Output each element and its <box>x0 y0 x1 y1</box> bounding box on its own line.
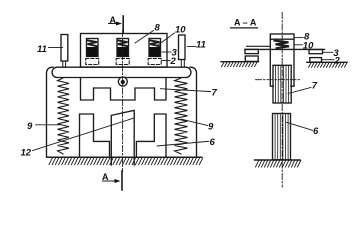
leader 8 <box>135 31 154 44</box>
bolt 11 right <box>179 35 186 60</box>
svg-text:6: 6 <box>313 126 319 137</box>
pole plate 3 right <box>309 50 323 54</box>
horizontal axis A-A <box>256 79 301 81</box>
svg-text:2: 2 <box>170 56 177 67</box>
spring 9 left <box>58 78 70 154</box>
electromagnet block E1 <box>87 39 99 57</box>
ground bottom A-A <box>255 159 301 161</box>
leader 6 right <box>157 141 209 146</box>
core column 6 section <box>273 114 291 160</box>
ground hatching main view <box>49 158 203 165</box>
pivot dot <box>121 80 125 84</box>
plate top left line <box>247 45 271 47</box>
svg-text:A: A <box>110 15 117 25</box>
centerline main <box>122 31 124 172</box>
leader 3 A-A <box>323 51 333 53</box>
leader 2 main <box>162 60 170 62</box>
svg-text:9: 9 <box>208 122 214 133</box>
leader 10 A-A <box>294 44 302 46</box>
svg-text:11: 11 <box>196 39 206 50</box>
lower block left (6) <box>80 114 110 157</box>
screw post 12 <box>111 110 134 165</box>
ground right A-A <box>307 61 347 63</box>
leader 3 main <box>162 51 171 53</box>
arrow A top <box>109 23 120 25</box>
beam capsule <box>52 67 191 77</box>
electromagnet block E3 <box>149 39 161 57</box>
svg-text:10: 10 <box>303 40 314 51</box>
centerline A-A <box>281 13 283 188</box>
svg-text:6: 6 <box>210 137 216 148</box>
leader 7 main <box>161 89 211 92</box>
base pad 2 right <box>310 58 322 63</box>
svg-text:A – A: A – A <box>234 18 257 28</box>
bolt 11 left <box>61 35 68 62</box>
leader 11 left <box>49 47 63 49</box>
bolt 11 left stem <box>63 61 66 67</box>
spring 9 right <box>175 78 188 154</box>
section line A top <box>122 16 124 33</box>
ground main view <box>47 156 202 158</box>
leader 2 A-A <box>322 59 334 61</box>
leader 10 main <box>158 33 175 45</box>
svg-text:11: 11 <box>37 44 47 55</box>
cap 8 section <box>270 34 294 39</box>
plate line <box>245 48 325 50</box>
svg-text:2: 2 <box>334 56 341 67</box>
arrow A bottom <box>103 180 118 182</box>
lower block right (6) <box>136 114 166 157</box>
ground left A-A <box>221 61 259 63</box>
svg-text:8: 8 <box>155 23 161 34</box>
dashed armature pad 3 <box>148 59 161 65</box>
armature column 7 section <box>273 65 291 103</box>
leader 8 A-A <box>295 37 304 39</box>
upper comb plate 7 <box>81 78 167 101</box>
svg-text:9: 9 <box>27 121 33 132</box>
coil 10 section <box>275 41 290 49</box>
leader 12 <box>33 118 135 151</box>
base pad 2 left <box>245 56 258 61</box>
svg-text:7: 7 <box>312 81 318 92</box>
svg-text:7: 7 <box>212 88 218 99</box>
frame outer walls <box>47 67 197 157</box>
leader 7 A-A <box>288 87 311 93</box>
dashed armature pad 2 <box>116 59 129 65</box>
leader 6 A-A <box>287 122 313 130</box>
svg-text:10: 10 <box>175 25 186 36</box>
leader 9 right <box>181 119 208 126</box>
bolt 11 right stem <box>181 60 184 68</box>
dashed armature pad 1 <box>86 59 99 65</box>
leader 9 left <box>36 124 60 126</box>
electromagnet block E2 <box>117 39 129 57</box>
housing bar 8 <box>81 34 168 68</box>
leader 11 right <box>188 46 196 48</box>
pivot cup <box>118 77 127 86</box>
section line A bottom <box>121 171 123 190</box>
svg-text:12: 12 <box>21 148 32 159</box>
pole plate 3 left <box>245 49 258 53</box>
beam sleeve section <box>270 39 294 86</box>
svg-text:A: A <box>102 172 109 182</box>
